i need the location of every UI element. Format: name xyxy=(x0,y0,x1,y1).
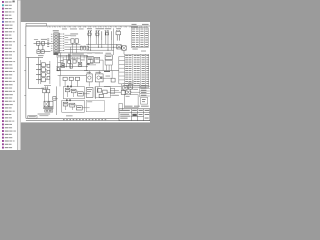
wire fan from X1 xyxy=(65,35,87,49)
wire rail P1 xyxy=(37,58,39,85)
connector X1 label xyxy=(53,30,59,31)
label above breakers xyxy=(41,38,47,41)
wire bus under connector xyxy=(54,52,101,54)
wires Q1 Q2 xyxy=(121,80,133,95)
wire right rail P3 xyxy=(49,61,51,84)
connector X1 bottom label xyxy=(53,54,58,56)
wire bus B xyxy=(88,46,122,48)
label under stack xyxy=(44,84,51,87)
plot header text row xyxy=(125,105,133,108)
X2 label xyxy=(131,25,138,28)
X3 wire stubs xyxy=(119,57,125,84)
schematic sheet page xyxy=(21,22,151,122)
wire drop F1 xyxy=(37,45,39,50)
contact pin number marks xyxy=(88,29,120,32)
side box of M1 xyxy=(110,88,114,93)
resistor R1 xyxy=(81,46,83,50)
center bus pair label xyxy=(72,53,84,56)
filter FL1 xyxy=(43,89,46,92)
wire bottom feed xyxy=(29,88,44,90)
cable duct mark xyxy=(104,71,110,72)
indicator lamps H1 H2 xyxy=(126,91,129,94)
contact S4 xyxy=(106,31,108,36)
IC U16 xyxy=(63,102,68,106)
optocoupler O2 xyxy=(42,68,46,72)
wires opto outputs xyxy=(45,65,47,80)
wire long vertical xyxy=(55,86,57,115)
wires PLC right xyxy=(110,89,119,91)
controller U11 xyxy=(95,57,100,63)
transformer T1 primary xyxy=(44,101,49,107)
module U12b xyxy=(105,60,112,65)
wire center taps xyxy=(58,47,87,76)
IC U15 xyxy=(78,92,84,96)
relay K3 xyxy=(95,74,103,82)
optocoupler O4 xyxy=(42,78,46,82)
labels above U1 U2 xyxy=(70,33,78,36)
breaker F2 xyxy=(42,41,45,45)
transformer T1 secondary xyxy=(49,101,53,107)
long feeder wire vertical xyxy=(113,28,115,55)
labels above starters xyxy=(123,82,127,85)
driver block D2 xyxy=(47,70,50,73)
wire center rung 4 xyxy=(58,74,86,76)
wire U11 to column xyxy=(100,59,104,61)
wire drops from contact row xyxy=(88,36,111,50)
driver block D1 xyxy=(47,64,50,67)
bracket X4 xyxy=(119,103,122,110)
G2 header terminals xyxy=(66,99,71,101)
wire center bus 2 xyxy=(56,56,88,58)
wire under U10 xyxy=(86,64,96,66)
wire pair dense xyxy=(68,54,69,61)
wire drops U1 U2 xyxy=(72,43,76,53)
wires in G2 xyxy=(66,104,90,110)
sheet revision box xyxy=(26,23,46,26)
X3 feeder bus xyxy=(118,57,120,84)
PLC block U19 xyxy=(86,88,93,98)
power module V2 xyxy=(78,62,82,66)
vertical scrollbar track xyxy=(18,0,21,150)
controller U10 xyxy=(87,56,93,63)
label K3 xyxy=(96,71,102,74)
contact S2 xyxy=(96,31,98,38)
wire left rail vertical xyxy=(28,58,30,89)
motor starter Q2 xyxy=(128,85,132,89)
IC U20 xyxy=(97,89,101,92)
driver block D3 xyxy=(47,76,50,79)
wire mid to right xyxy=(107,91,121,93)
contact S5 xyxy=(110,31,112,40)
IC U14 xyxy=(71,89,76,93)
aux contact block A1 xyxy=(37,50,40,54)
label K2 xyxy=(87,71,91,74)
wire rail P2 xyxy=(40,60,42,84)
wire column right stack xyxy=(139,85,141,98)
IC U22 xyxy=(99,94,103,97)
wire column down xyxy=(102,60,104,70)
sensor B1 xyxy=(53,97,56,101)
terminal strip X3 rows xyxy=(125,55,149,86)
wire lamps to right xyxy=(131,91,140,93)
optocoupler O3 xyxy=(42,73,46,77)
title block frame xyxy=(119,109,150,121)
aux contact block A2 xyxy=(41,50,44,54)
resistor R2 xyxy=(84,46,86,50)
wire center rung 1 xyxy=(58,61,64,63)
IC U2 xyxy=(75,39,78,43)
wires in G1 xyxy=(68,90,90,97)
module frame M1 xyxy=(95,87,110,98)
title block texts xyxy=(120,110,149,119)
wire center rung 0 xyxy=(63,59,71,61)
terminal number column of X1 xyxy=(63,34,65,51)
wire bus A xyxy=(86,43,117,45)
transformer T1 core lines xyxy=(43,107,53,109)
label FL xyxy=(41,87,48,90)
optocoupler O1 xyxy=(42,63,46,67)
resistor R3 xyxy=(87,46,89,50)
auxiliary box xyxy=(111,78,115,82)
wire input feed xyxy=(34,43,54,45)
terminal strip X3 table xyxy=(125,54,149,87)
junction dots xyxy=(88,44,114,51)
IC U1 xyxy=(71,39,74,43)
connector X1 left pin numbers xyxy=(51,34,53,51)
labels along center bus xyxy=(70,57,81,60)
wire center rung 3 xyxy=(56,69,88,71)
wires FL xyxy=(44,86,48,101)
distribution box xyxy=(121,91,125,95)
wire drop F2 xyxy=(42,44,44,49)
label mid left xyxy=(38,54,44,57)
sensor input B2 xyxy=(57,68,59,71)
arrester E1 xyxy=(117,45,121,49)
project tree sidebar panel xyxy=(0,0,17,150)
capacitor C2 xyxy=(70,64,73,68)
wire main lower bus xyxy=(84,70,119,72)
sidebar top toolbar mark xyxy=(13,1,15,3)
application canvas background xyxy=(0,0,150,150)
IC U18 xyxy=(76,106,82,110)
wire rows to right edge xyxy=(140,86,150,96)
contact pin dots xyxy=(88,30,109,33)
diode module V1 xyxy=(61,64,64,68)
mounting plate outline xyxy=(86,100,104,112)
sidebar item rows with device icons xyxy=(2,1,16,149)
relay K2 xyxy=(87,74,93,82)
relay coil K1 xyxy=(116,32,121,35)
wire center rung 2 xyxy=(56,66,88,68)
sheet header note right xyxy=(132,23,137,26)
IC U13 xyxy=(65,88,69,92)
sheet footer note xyxy=(66,114,73,117)
ladder junction dots xyxy=(57,66,87,71)
group frame G2 xyxy=(62,100,85,112)
terminal column T1 xyxy=(47,39,49,48)
right label stack xyxy=(141,85,146,96)
motor starter Q1 xyxy=(123,86,127,90)
connector X1 body xyxy=(54,33,59,53)
label right of K3 xyxy=(106,75,111,78)
labels above contact row xyxy=(87,27,92,30)
labels above controllers xyxy=(87,52,92,55)
arrester E2 xyxy=(122,46,126,50)
wire stub to sensor xyxy=(53,98,58,100)
wire to starter group xyxy=(104,85,121,87)
group frame G1 xyxy=(63,87,84,99)
wire bus mid left horizontal xyxy=(26,57,43,59)
labels top mid band xyxy=(62,28,67,31)
labels between tables xyxy=(132,48,137,51)
transformer terminal row xyxy=(45,110,53,113)
terminal strip X2 table xyxy=(131,28,148,48)
filter FL2 xyxy=(47,89,50,92)
labels center xyxy=(60,59,64,62)
caption under transformer xyxy=(38,113,51,116)
wires relay group xyxy=(89,71,112,87)
wire stub E2 down xyxy=(123,50,125,54)
wire center bus 1 xyxy=(56,54,88,56)
junction box right xyxy=(141,98,148,105)
IC U21 xyxy=(103,90,107,94)
G1 header terminals xyxy=(67,86,72,88)
wire link under blocks xyxy=(44,50,50,52)
wire bus C xyxy=(86,49,113,51)
contact S3 xyxy=(101,31,103,40)
wire aux to bracket xyxy=(112,94,119,96)
resistor network RN1 xyxy=(63,77,67,80)
breaker F1 xyxy=(37,41,40,45)
wire verticals from PLC xyxy=(96,86,98,99)
capacitor C1 xyxy=(73,60,76,63)
wire drops RN1 xyxy=(60,75,78,86)
sheet footer label box xyxy=(28,116,37,119)
module U12a xyxy=(105,55,112,60)
panel splitter xyxy=(16,0,19,150)
contact S1 xyxy=(88,31,90,38)
marks under U10 xyxy=(87,64,90,65)
wire taps U12 xyxy=(107,65,112,71)
connector X1 pin rail xyxy=(58,33,60,53)
terminal strip X2 rows xyxy=(132,29,148,47)
wire stub to C1 xyxy=(71,57,73,60)
opto input stubs xyxy=(38,65,41,80)
connector X1 pin stubs xyxy=(59,34,62,53)
IC U17 xyxy=(70,103,75,107)
terminal block TB1 xyxy=(68,60,71,63)
enclosure outline xyxy=(125,95,139,108)
